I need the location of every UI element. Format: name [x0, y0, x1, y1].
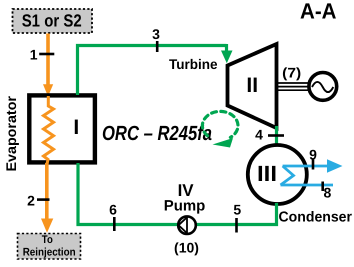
node 9 [309, 147, 317, 170]
wire condenser to pump to evaporator (bottom green) [78, 163, 277, 225]
turbine II [228, 44, 277, 128]
svg-text:To: To [42, 234, 53, 246]
node 1 [30, 47, 54, 63]
wire arrow into turbine [225, 44, 228, 52]
reinjection box [18, 234, 81, 260]
source box S1 or S2 [13, 9, 93, 33]
svg-text:4: 4 [255, 127, 263, 143]
svg-text:Evaporator: Evaporator [3, 95, 19, 171]
generator [309, 73, 337, 101]
svg-text:5: 5 [233, 202, 241, 218]
svg-text:9: 9 [309, 147, 317, 163]
cycle direction arrowhead [213, 138, 234, 148]
svg-text:II: II [246, 74, 258, 97]
cooling water ribbon (blue) [281, 159, 343, 185]
svg-text:A-A: A-A [300, 0, 337, 24]
heating coil (orange zigzag inside evaporator) [44, 96, 54, 164]
svg-text:(7): (7) [282, 65, 301, 81]
svg-text:1: 1 [30, 47, 38, 63]
shaft lines [278, 83, 309, 90]
svg-text:Pump: Pump [164, 198, 206, 215]
svg-text:Turbine: Turbine [169, 56, 218, 72]
svg-text:(10): (10) [174, 240, 199, 256]
cycle direction dashed ellipse [202, 111, 238, 137]
node 4 [255, 127, 284, 143]
arrowhead into reinjection box [41, 219, 53, 233]
node 2 [27, 193, 49, 209]
svg-text:ORC – R245fa: ORC – R245fa [102, 122, 212, 145]
condenser III [248, 145, 307, 204]
node 5 [233, 202, 241, 233]
wire turbine to condenser [275, 126, 278, 146]
svg-text:6: 6 [109, 202, 117, 218]
orange reinjection line [45, 163, 49, 221]
svg-text:Reinjection: Reinjection [23, 247, 76, 259]
arrowhead into evaporator [43, 84, 53, 96]
orange brine supply line [46, 34, 50, 87]
svg-text:3: 3 [152, 26, 160, 42]
svg-text:III: III [257, 161, 277, 186]
node 6 [109, 202, 117, 232]
node 8 [323, 182, 332, 201]
evaporator box I [29, 95, 95, 162]
pump IV [178, 216, 196, 234]
wire evaporator to turbine (top green) [78, 46, 227, 96]
svg-text:I: I [73, 116, 79, 139]
svg-text:8: 8 [324, 185, 332, 201]
svg-text:2: 2 [27, 193, 35, 209]
node 3 [152, 26, 160, 52]
svg-text:S1 or S2: S1 or S2 [22, 11, 82, 31]
svg-text:Condenser: Condenser [279, 210, 353, 226]
